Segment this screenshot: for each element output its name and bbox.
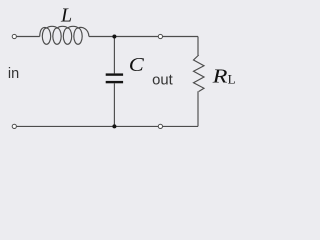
wire: resistor to bottom-right corner (197, 91, 199, 126)
wire: inductor to top-right corner (89, 36, 198, 38)
wire: top node down to capacitor (113, 37, 115, 74)
svg-text:in: in (8, 66, 19, 82)
svg-text:C: C (129, 54, 145, 76)
capacitor C (106, 73, 123, 83)
resistor RL (194, 55, 205, 92)
wire: right vertical down to resistor (197, 37, 199, 56)
svg-text:R: R (211, 65, 227, 87)
input terminal top (12, 34, 16, 38)
svg-text:L: L (228, 71, 236, 86)
svg-text:out: out (152, 73, 173, 89)
input terminal bottom (12, 124, 16, 128)
svg-text:L: L (60, 5, 72, 27)
wire: input top terminal to inductor (17, 36, 40, 38)
junction node bottom (112, 124, 116, 128)
output terminal top (158, 34, 162, 38)
inductor L (40, 26, 89, 44)
output terminal bottom (158, 124, 162, 128)
junction node top (112, 35, 116, 39)
wire: capacitor down to bottom rail (113, 83, 115, 126)
wire: bottom rail (17, 125, 198, 127)
